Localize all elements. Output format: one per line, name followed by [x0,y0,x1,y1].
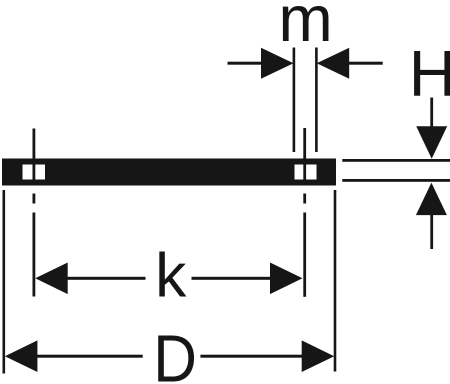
svg-text:D: D [153,323,197,384]
svg-text:H: H [409,37,450,110]
svg-text:k: k [155,241,187,311]
svg-text:m: m [278,0,332,55]
